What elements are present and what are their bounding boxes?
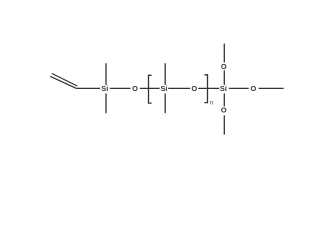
bond O down-methyl [223,115,225,134]
bracket right [204,75,207,103]
svg-text:O: O [221,106,227,115]
svg-text:Si: Si [101,84,108,93]
bond Si1 methyl up [105,63,107,85]
svg-text:O: O [221,62,227,71]
svg-text:O: O [132,84,138,93]
svg-text:Si: Si [161,84,168,93]
svg-text:Si: Si [220,84,227,93]
bond O up-Si3 [223,70,225,85]
bond Si1 methyl down [105,93,107,113]
bond CH-Si1 [76,87,100,89]
bond Si3-O3 right [229,87,249,89]
bond C=C main line [50,76,76,88]
bond O3-methyl right [259,87,284,89]
svg-text:n: n [210,99,214,106]
bond Si2-O2 [168,87,190,89]
bond Si3-O down [223,93,225,106]
bond C=C double bond outer line [52,74,77,87]
svg-text:O: O [191,84,197,93]
bond Si2 methyl down [164,93,166,113]
bond O1-Si2 [140,87,160,89]
bond Si2 methyl up [164,63,166,85]
svg-text:O: O [251,84,257,93]
bond methyl-O up [223,44,225,63]
bracket left [149,75,152,103]
bond O2-Si3 [198,87,219,89]
bond Si1-O1 [110,87,131,89]
